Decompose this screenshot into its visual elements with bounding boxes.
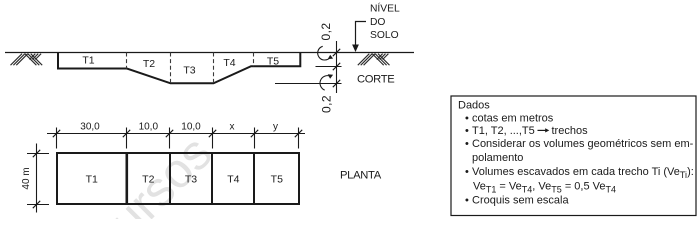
plan rectangle [57, 153, 299, 204]
svg-text:CORTE: CORTE [357, 74, 394, 86]
svg-text:trechos: trechos [552, 125, 589, 137]
svg-text:30,0: 30,0 [80, 122, 100, 133]
svg-text:polamento: polamento [472, 152, 523, 164]
leader arc bottom [320, 76, 330, 90]
svg-text:T4: T4 [223, 57, 235, 69]
plan divider T2/T3 [169, 153, 171, 204]
svg-text:NÍVEL: NÍVEL [370, 2, 400, 15]
svg-text:T1: T1 [86, 174, 98, 186]
svg-text:cotas em metros: cotas em metros [472, 112, 554, 124]
svg-text:T3: T3 [183, 65, 195, 77]
dashed divider T1/T2 [126, 53, 128, 69]
ground hatch right [358, 54, 390, 65]
svg-text:Considerar os volumes geométri: Considerar os volumes geométricos sem em… [472, 138, 694, 150]
plan divider T1/T2 [126, 153, 129, 204]
svg-text:T1: T1 [82, 55, 94, 67]
svg-text:T2: T2 [142, 174, 154, 186]
svg-text:0,2: 0,2 [320, 95, 334, 113]
extension line bottom (T3 bottom level) [275, 83, 342, 85]
left dimension line [36, 144, 38, 213]
right depth dimension: vertical line [336, 41, 338, 93]
svg-text:Croquis sem escala: Croquis sem escala [472, 194, 569, 206]
top dimension ticks [53, 130, 302, 137]
svg-text:x: x [230, 122, 235, 133]
svg-text:T4: T4 [227, 174, 239, 186]
svg-text:10,0: 10,0 [139, 122, 159, 133]
svg-text:•: • [465, 166, 469, 178]
svg-text:•: • [465, 138, 469, 150]
svg-text:SOLO: SOLO [370, 30, 399, 41]
top dimension labels [80, 122, 278, 133]
svg-text:40 m: 40 m [21, 167, 32, 189]
svg-text:•: • [465, 112, 469, 124]
svg-text:T2: T2 [143, 58, 155, 70]
svg-text:Volumes escavados em cada trec: Volumes escavados em cada trecho Ti (VeT… [472, 166, 694, 180]
svg-text:•: • [465, 125, 469, 137]
svg-text:DO: DO [370, 17, 385, 28]
extension line mid (T5 bottom level) [316, 66, 342, 68]
left dimension ticks [33, 150, 40, 208]
svg-text:0,2: 0,2 [319, 23, 333, 41]
corte labels [82, 55, 279, 77]
excavation profile (trench) [58, 53, 300, 84]
plan divider T4/T5 [253, 153, 255, 204]
dashed divider T3/T4 [213, 53, 215, 84]
nivel do solo text [370, 2, 400, 42]
ground hatch left [11, 54, 43, 65]
svg-text:•: • [465, 194, 469, 206]
svg-text:T5: T5 [271, 174, 283, 186]
dashed divider T2/T3 [170, 53, 172, 84]
top extension lines [57, 128, 299, 149]
svg-text:Dados: Dados [458, 99, 490, 111]
svg-text:y: y [273, 122, 278, 133]
svg-text:T5: T5 [267, 56, 279, 68]
svg-text:T3: T3 [185, 174, 197, 186]
dashed divider T4/T5 [253, 53, 255, 67]
top dimension line [47, 133, 305, 135]
nivel do solo leader [356, 22, 367, 51]
svg-text:10,0: 10,0 [181, 122, 201, 133]
svg-text:T1, T2, ...,T5: T1, T2, ...,T5 [472, 125, 535, 137]
ticks on dim line [333, 49, 340, 87]
ground line [5, 52, 414, 54]
svg-text:PLANTA: PLANTA [340, 170, 382, 182]
leader arc top [318, 46, 331, 60]
plan divider T3/T4 [211, 153, 213, 204]
left extension lines [27, 154, 49, 205]
plan labels [86, 174, 284, 186]
